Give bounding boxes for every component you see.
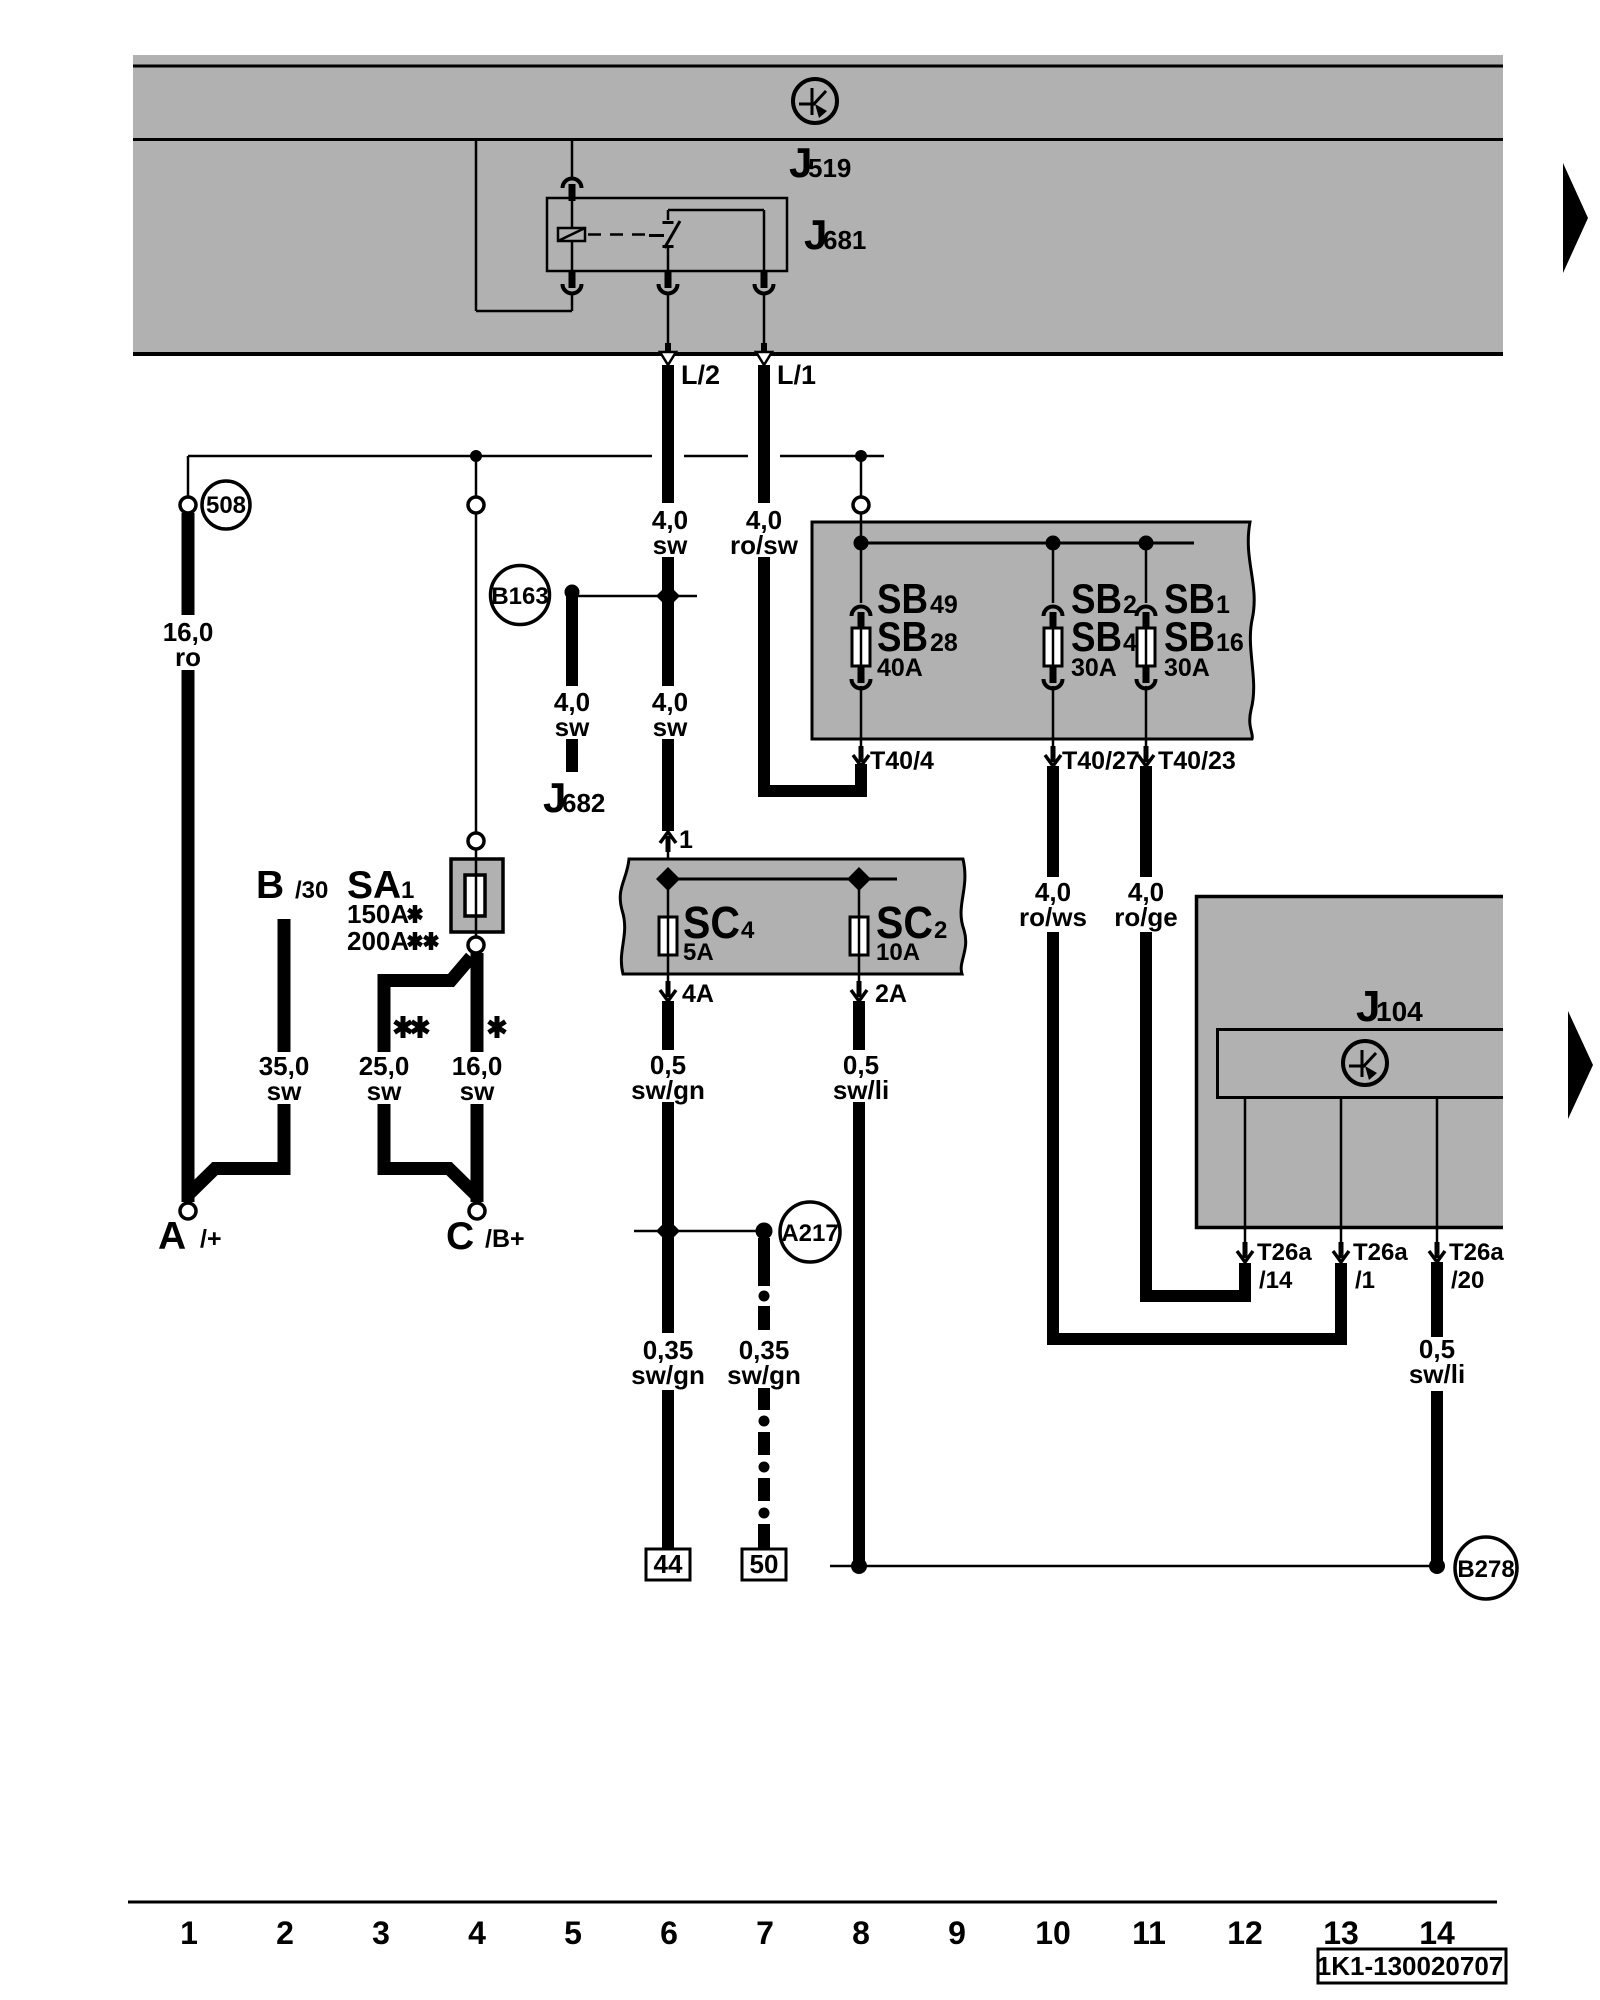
svg-text:ro/ge: ro/ge <box>1114 902 1178 932</box>
svg-text:2: 2 <box>934 917 947 944</box>
svg-text:3: 3 <box>372 1915 390 1951</box>
svg-text:T26a: T26a <box>1353 1239 1408 1266</box>
svg-text:T40/4: T40/4 <box>870 747 934 775</box>
svg-text:508: 508 <box>206 492 246 519</box>
svg-text:10: 10 <box>1035 1915 1071 1951</box>
svg-text:10A: 10A <box>876 939 920 966</box>
svg-text:44: 44 <box>654 1549 683 1579</box>
svg-text:150A: 150A <box>347 899 409 929</box>
svg-text:SB: SB <box>1164 613 1215 660</box>
svg-text:12: 12 <box>1227 1915 1263 1951</box>
svg-text:ro/ws: ro/ws <box>1019 902 1087 932</box>
svg-text:SB: SB <box>877 613 928 660</box>
svg-text:49: 49 <box>930 591 958 619</box>
svg-text:T26a: T26a <box>1449 1239 1504 1266</box>
svg-text:9: 9 <box>948 1915 966 1951</box>
svg-text:T40/27: T40/27 <box>1062 747 1140 775</box>
svg-text:682: 682 <box>562 788 605 818</box>
svg-text:B278: B278 <box>1457 1556 1514 1583</box>
svg-text:ro/sw: ro/sw <box>730 530 799 560</box>
svg-text:11: 11 <box>1132 1915 1166 1951</box>
svg-text:sw: sw <box>555 712 590 742</box>
svg-text:SB: SB <box>1071 613 1122 660</box>
svg-text:sw/gn: sw/gn <box>631 1360 705 1390</box>
svg-text:T40/23: T40/23 <box>1158 747 1236 775</box>
svg-text:6: 6 <box>660 1915 678 1951</box>
svg-text:L/1: L/1 <box>777 360 816 390</box>
svg-text:1K1-130020707: 1K1-130020707 <box>1317 1951 1504 1981</box>
svg-text:40A: 40A <box>877 654 923 682</box>
svg-text:sw: sw <box>460 1076 495 1106</box>
svg-text:104: 104 <box>1376 996 1423 1027</box>
svg-text:A: A <box>158 1215 186 1258</box>
svg-text:L/2: L/2 <box>681 360 720 390</box>
svg-text:ro: ro <box>175 642 201 672</box>
svg-text:4: 4 <box>741 917 755 944</box>
svg-text:/1: /1 <box>1355 1267 1375 1294</box>
svg-text:50: 50 <box>750 1549 779 1579</box>
svg-text:4: 4 <box>468 1915 486 1951</box>
svg-text:5A: 5A <box>683 939 714 966</box>
svg-text:30A: 30A <box>1071 654 1117 682</box>
svg-text:30A: 30A <box>1164 654 1210 682</box>
svg-text:/14: /14 <box>1259 1267 1293 1294</box>
svg-text:A217: A217 <box>781 1220 838 1247</box>
svg-text:1: 1 <box>180 1915 198 1951</box>
svg-text:4A: 4A <box>682 980 714 1008</box>
svg-text:2: 2 <box>276 1915 294 1951</box>
svg-text:sw/li: sw/li <box>833 1075 889 1105</box>
svg-text:200A: 200A <box>347 926 409 956</box>
svg-text:sw: sw <box>653 530 688 560</box>
svg-text:sw/li: sw/li <box>1409 1359 1465 1389</box>
svg-text:8: 8 <box>852 1915 870 1951</box>
svg-text:C: C <box>446 1215 474 1258</box>
svg-text:/+: /+ <box>200 1225 222 1253</box>
svg-text:/30: /30 <box>295 877 328 904</box>
svg-text:7: 7 <box>756 1915 774 1951</box>
svg-text:1: 1 <box>1216 591 1230 619</box>
svg-text:sw/gn: sw/gn <box>727 1360 801 1390</box>
svg-text:sw: sw <box>267 1076 302 1106</box>
svg-text:1: 1 <box>679 826 693 854</box>
svg-text:B: B <box>256 864 284 907</box>
svg-text:sw: sw <box>653 712 688 742</box>
svg-text:/20: /20 <box>1451 1267 1484 1294</box>
svg-text:4: 4 <box>1123 629 1137 657</box>
svg-text:T26a: T26a <box>1257 1239 1312 1266</box>
svg-text:16: 16 <box>1216 629 1244 657</box>
svg-text:681: 681 <box>823 225 866 255</box>
svg-text:519: 519 <box>808 153 851 183</box>
svg-text:2: 2 <box>1123 591 1137 619</box>
svg-text:2A: 2A <box>875 980 907 1008</box>
svg-text:28: 28 <box>930 629 958 657</box>
svg-text:sw/gn: sw/gn <box>631 1075 705 1105</box>
svg-text:13: 13 <box>1323 1915 1359 1951</box>
svg-text:14: 14 <box>1419 1915 1455 1951</box>
svg-text:B163: B163 <box>491 583 548 610</box>
svg-text:5: 5 <box>564 1915 582 1951</box>
svg-text:sw: sw <box>367 1076 402 1106</box>
svg-text:/B+: /B+ <box>485 1225 525 1253</box>
